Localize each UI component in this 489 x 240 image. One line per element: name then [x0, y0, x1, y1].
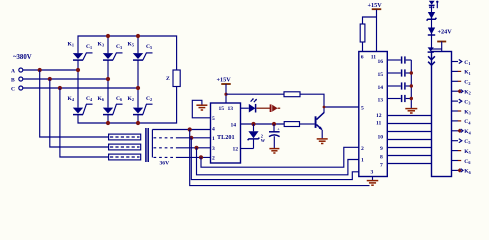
terminal K6 [452, 168, 471, 175]
svg-text:12: 12 [233, 147, 239, 153]
ground (capacitor bus) [405, 109, 417, 113]
svg-text:6: 6 [361, 55, 364, 61]
svg-text:2: 2 [212, 156, 215, 162]
svg-text:3: 3 [212, 146, 215, 152]
transformer T1 primary winding 3 [109, 154, 141, 160]
power +15V bar (U1) [221, 83, 231, 85]
wire sync bundle c [191, 138, 358, 180]
node zener tap [251, 122, 255, 126]
wire leg column 3 [137, 36, 139, 53]
thyristor K4 [68, 96, 94, 115]
wire R1 to Q1 collector [300, 94, 324, 113]
terminal C6 [452, 159, 471, 165]
IC U2 (trigger controller) [359, 52, 388, 177]
wire B drop to transformer [50, 79, 109, 147]
svg-text:C1: C1 [86, 44, 92, 50]
capacitor C7 (electrolytic) [269, 124, 280, 148]
capacitor C14 (U2 pin13) [387, 95, 411, 102]
svg-text:C5: C5 [146, 44, 152, 50]
svg-text:+24V: +24V [438, 29, 453, 36]
wire leg column 2 [107, 36, 109, 53]
wire secondary bus [151, 130, 153, 158]
svg-text:C6: C6 [116, 96, 122, 102]
wire bottom DC bus [78, 87, 177, 124]
wire +15V to U2 pin11 [376, 10, 378, 52]
wire secondary-2 to U1 pin3 [176, 147, 211, 149]
thyristor K3 [98, 41, 123, 60]
thyristor K1 [68, 41, 93, 60]
wire +15V to U1 top pin [225, 84, 227, 103]
diode D5 [428, 28, 435, 36]
svg-text:C: C [11, 86, 15, 92]
diode D6 [428, 47, 442, 52]
LED D1 [249, 98, 257, 112]
wire sync bundle d [190, 130, 370, 186]
transformer T1 secondary winding 2 [154, 147, 177, 149]
svg-text:14: 14 [231, 123, 237, 129]
zener diode D3 [248, 124, 266, 149]
svg-text:C2: C2 [464, 80, 470, 86]
node capacitor bus junctions [410, 71, 413, 74]
svg-text:11: 11 [371, 55, 376, 61]
wire sync bundle b [197, 148, 359, 175]
node +15V branch [224, 93, 227, 96]
wire diode chain [431, 5, 433, 50]
wire secondary-3 to U1 pin2 [176, 156, 211, 158]
svg-text:13: 13 [378, 98, 384, 104]
wire U2 pin3 to ground [372, 177, 374, 181]
svg-text:C2: C2 [146, 96, 152, 102]
node capacitor tap [272, 122, 276, 126]
ground (Q1 emitter) [317, 139, 328, 144]
ground (C7) [269, 149, 279, 153]
svg-text:A: A [11, 68, 15, 74]
svg-text:11: 11 [376, 121, 381, 127]
svg-text:C3: C3 [116, 44, 122, 50]
svg-text:K4: K4 [464, 129, 471, 135]
op-amp U1 TL201 [211, 103, 241, 163]
terminal C1 [452, 60, 471, 67]
wire A drop to transformer [40, 70, 109, 137]
wire Q1 collector to U2 pin5 [324, 106, 359, 108]
terminal K4 [452, 129, 472, 136]
svg-text:K3: K3 [464, 109, 470, 115]
svg-text:+15V: +15V [217, 77, 232, 84]
wire U2 output 5 to pulse box [387, 147, 431, 149]
node phase junctions [38, 68, 42, 72]
wire phase B [23, 78, 108, 80]
suppressor arrows [428, 56, 435, 65]
terminal K3 [452, 109, 471, 115]
wire U2 output 2 to pulse box [387, 123, 431, 125]
svg-text:3: 3 [371, 170, 374, 176]
svg-text:K4: K4 [68, 96, 75, 102]
svg-text:TL201: TL201 [217, 134, 235, 141]
svg-text:8: 8 [380, 155, 383, 161]
wire top DC bus [78, 36, 177, 70]
transformer T1 secondary winding 3 [154, 156, 177, 158]
pulse transformer box U3 [432, 52, 452, 177]
capacitor C12 (U2 pin15) [387, 69, 411, 76]
wire secondary top to U1 pin4 [152, 129, 210, 131]
node bottom-bus junctions [106, 121, 110, 125]
thyristor K2 [128, 96, 153, 115]
svg-text:C4: C4 [86, 96, 93, 102]
svg-text:B: B [11, 77, 15, 83]
ground (U1 pin5) [196, 105, 207, 110]
wire +15V to R1 [226, 93, 284, 95]
wire U2 output 6 to pulse box [387, 155, 431, 157]
svg-text:K5: K5 [464, 149, 470, 155]
node top-bus junctions [106, 34, 110, 38]
terminal B [11, 77, 23, 83]
wire U2 output 4 to pulse box [387, 139, 431, 141]
svg-text:1: 1 [361, 158, 364, 164]
wire U2 output 1 to pulse box [387, 115, 431, 117]
ground (U2 pin3) [367, 181, 379, 186]
svg-text:5: 5 [361, 106, 364, 112]
capacitor C11 (U2 pin16) [387, 56, 411, 63]
node sync taps [188, 127, 192, 131]
power +15V bar (U2) [372, 8, 382, 10]
svg-text:+: + [277, 127, 280, 132]
wire R2 to Q1 base [300, 123, 315, 125]
svg-text:12: 12 [376, 113, 382, 119]
transformer T1 primary winding 2 [109, 144, 141, 150]
svg-text:K1: K1 [464, 70, 470, 76]
terminal C [11, 86, 23, 92]
svg-text:5: 5 [212, 116, 215, 122]
terminal C3 [452, 99, 471, 106]
svg-text:+15V: +15V [368, 2, 383, 9]
svg-text:15: 15 [378, 72, 384, 78]
transformer T1 core [146, 128, 148, 162]
svg-text:K2: K2 [128, 96, 134, 102]
resistor R2 [284, 122, 299, 127]
wire phase A [23, 69, 78, 71]
wire U1 pin5 to ground [192, 100, 210, 118]
wire +24V to pulse box [441, 42, 443, 52]
svg-text:K2: K2 [464, 90, 470, 96]
wire capacitor common bus [410, 60, 412, 108]
svg-text:K5: K5 [128, 41, 134, 47]
terminal K1 [452, 70, 471, 76]
svg-text:C4: C4 [464, 119, 471, 125]
svg-text:36V: 36V [160, 161, 170, 167]
svg-text:1: 1 [212, 136, 215, 142]
svg-text:C3: C3 [464, 99, 470, 105]
zener diode D4 [427, 12, 437, 21]
transformer T1 secondary winding 1 [154, 137, 177, 139]
transformer T1 primary winding 1 [109, 134, 141, 140]
wire secondary-1 to U1 pin1 [176, 137, 211, 139]
wire U1 pin14 row [241, 123, 285, 125]
svg-text:C5: C5 [464, 139, 470, 145]
wire +15V branch to R3 [363, 17, 377, 24]
wire leg column 1 [77, 60, 79, 70]
resistor R1 [284, 92, 300, 97]
terminal K5 [452, 149, 471, 155]
terminal C5 [452, 139, 471, 146]
svg-text:W: W [261, 138, 266, 143]
svg-text:~380V: ~380V [13, 54, 32, 61]
wire phase C [23, 87, 138, 89]
svg-text:14: 14 [378, 85, 384, 91]
wire zener to U1 pin12 [241, 148, 254, 150]
wire U2 output 3 to pulse box [387, 131, 431, 133]
svg-text:15: 15 [219, 106, 225, 112]
thyristor K6 [98, 96, 123, 115]
wire U1 pin13 output [241, 107, 249, 109]
diode chain indicator glyph [429, 1, 439, 9]
terminal C2 [452, 80, 471, 86]
svg-text:9: 9 [380, 146, 383, 152]
load resistor Z [166, 70, 180, 87]
resistor R3 [360, 24, 365, 42]
diode D2 (red) [271, 104, 281, 112]
capacitor C13 (U2 pin14) [387, 82, 411, 89]
svg-text:K6: K6 [98, 96, 104, 102]
svg-text:K6: K6 [464, 169, 470, 175]
svg-text:16: 16 [378, 59, 384, 65]
svg-text:7: 7 [380, 163, 383, 169]
node collector junction [323, 106, 326, 109]
terminal A [11, 68, 23, 74]
power +24V bar [437, 41, 446, 43]
svg-text:13: 13 [228, 106, 234, 112]
svg-text:2: 2 [361, 146, 364, 152]
svg-text:Z: Z [166, 76, 170, 82]
transistor Q1 [315, 113, 324, 139]
svg-text:K1: K1 [68, 41, 74, 47]
svg-text:10: 10 [378, 135, 384, 141]
svg-text:K3: K3 [98, 41, 104, 47]
wire C drop to transformer [60, 88, 109, 157]
terminal K2 [452, 89, 471, 96]
svg-text:C1: C1 [464, 60, 470, 66]
wire U2 output 7 to pulse box [387, 163, 431, 165]
svg-text:C6: C6 [464, 159, 470, 165]
wire sync bundle a [201, 147, 359, 167]
wire (red) D1 to D2 [256, 107, 270, 109]
wire R3 to U2 pin6 [362, 42, 364, 52]
terminal C4 [452, 119, 472, 125]
thyristor K5 [128, 41, 153, 60]
svg-text:4: 4 [212, 127, 215, 133]
